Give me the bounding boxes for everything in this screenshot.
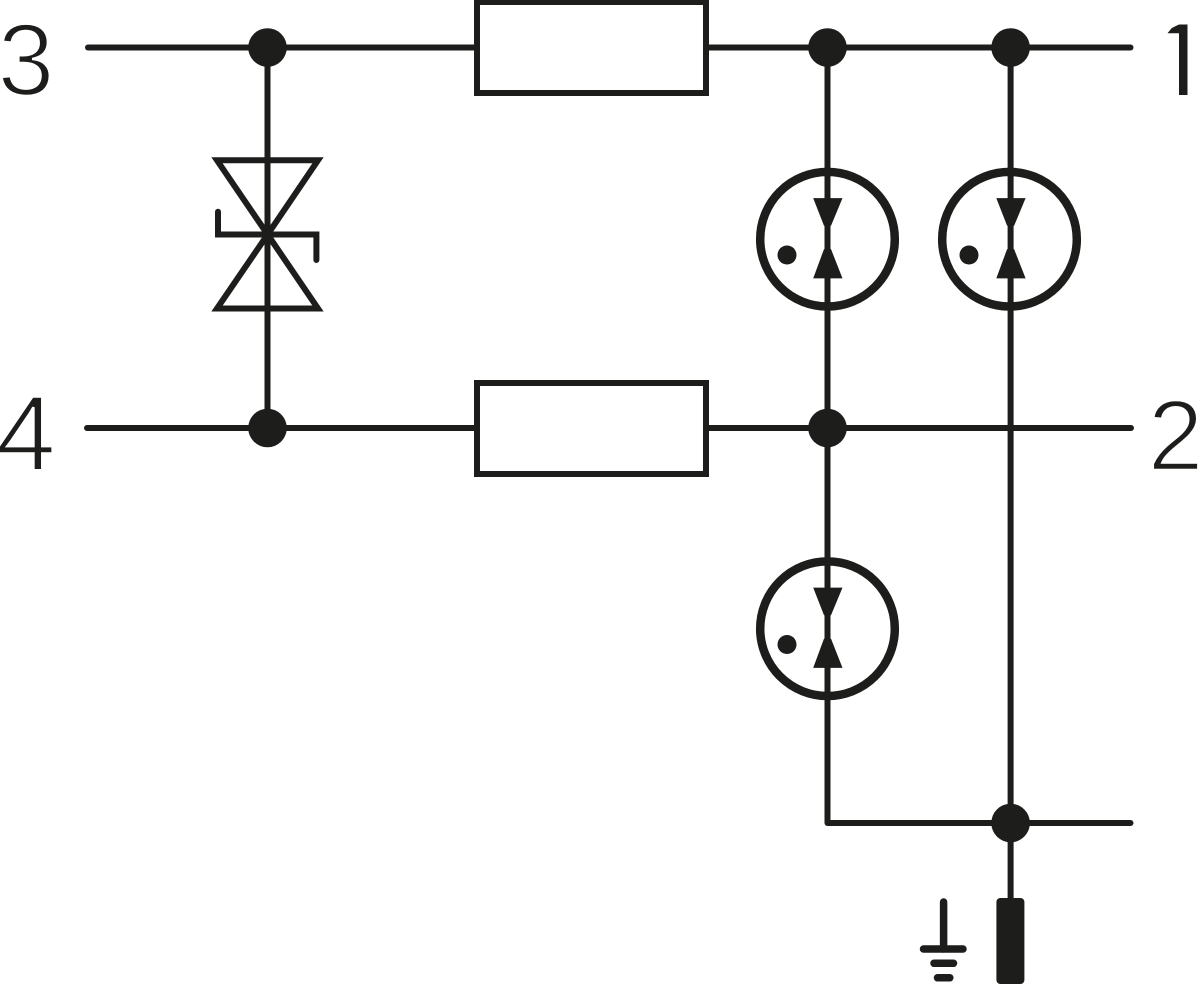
earth electrode (solid bar) [996, 898, 1024, 984]
svg-text:2: 2 [1148, 380, 1200, 492]
arrester F1 (gas discharge tube, top left circle) [760, 172, 895, 307]
node: junction on lower rail at arrester F1/F3 [808, 409, 847, 448]
suppressor diode (bidirectional TVS) between rails 3 and 4 [217, 160, 318, 308]
wire: vertical through suppressor diode between rails [265, 48, 271, 429]
svg-text:3: 3 [0, 3, 54, 117]
svg-text:4: 4 [0, 373, 56, 493]
arrester F2 (gas discharge tube, top right circle) [942, 172, 1077, 307]
wire: lower rail from terminal 4 to terminal 2 [87, 425, 1131, 431]
arrester F3 (gas discharge tube, lower circle) [760, 561, 895, 696]
ground (earth symbol) [924, 902, 964, 978]
resistor (bottom, between 4 and 2) [477, 383, 706, 474]
wire: vertical through arrester F1 between rails [825, 48, 831, 429]
node: junction on bottom run above earth electrode [991, 804, 1030, 843]
wire: vertical through arrester F2 from top rail down to earth electrode [1008, 48, 1014, 899]
terminal label 1 [1168, 25, 1188, 96]
wire: vertical through arrester F3 and bottom run to the right [828, 428, 1131, 823]
resistor (top, between 3 and 1) [477, 2, 706, 93]
node: junction on top rail above suppressor diode [248, 28, 287, 67]
wire: top rail from terminal 3 to terminal 1 [88, 45, 1131, 51]
node: junction on top rail above arrester F1 [808, 28, 847, 67]
node: junction on lower rail below suppressor diode [248, 409, 287, 448]
node: junction on top rail above arrester F2 [991, 28, 1030, 67]
